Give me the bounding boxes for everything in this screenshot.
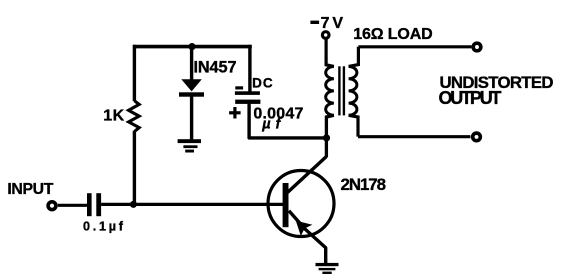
- diode D1 cathode wire: [190, 97, 193, 140]
- svg-text:1K: 1K: [103, 108, 124, 125]
- node: junction dot on top bus at diode branch: [188, 43, 195, 50]
- terminal: top output open circle: [473, 43, 481, 51]
- wire: input terminal to C1: [58, 204, 87, 207]
- wire: secondary bottom stub down to output wire: [349, 115, 358, 136]
- diode D1 1N457 triangle: [181, 79, 202, 91]
- wire: collector diagonal from bend into base bar: [288, 157, 327, 193]
- ground symbol (diode) bar 1: [178, 139, 201, 143]
- transistor Q1 base bar: [283, 183, 289, 227]
- svg-text:7V: 7V: [321, 15, 344, 32]
- wire: bottom output lead: [358, 135, 470, 138]
- power terminal -7V open circle: [322, 32, 329, 39]
- transformer T1 core line 1: [338, 66, 340, 115]
- wire: C1 to transistor base: [101, 203, 283, 206]
- transformer T1 core line 2: [343, 66, 345, 115]
- capacitor C1 plate 1: [87, 193, 92, 216]
- capacitor C2 bottom plate: [235, 100, 260, 104]
- node: junction dot under transformer primary: [323, 134, 330, 141]
- svg-text:16Ω LOAD: 16Ω LOAD: [353, 26, 433, 43]
- ground symbol (emitter) bar 2: [319, 268, 336, 270]
- plus polarity sign of C2: [229, 111, 241, 114]
- wire: left branch vertical upper segment: [133, 45, 136, 101]
- svg-text:2N178: 2N178: [341, 175, 387, 194]
- wire: left branch vertical lower segment down to input line: [133, 131, 136, 205]
- minus polarity sign of C2: [235, 86, 243, 89]
- wire: top bus from 1K branch to DC capacitor branch: [133, 45, 252, 49]
- wire: DC capacitor branch top vertical: [248, 45, 251, 92]
- label -7V: [310, 21, 319, 24]
- svg-text:DC: DC: [252, 75, 273, 90]
- wire: C2 bottom to junction under transformer: [249, 103, 326, 137]
- transistor Q1 emitter arrowhead (PNP, pointing toward base): [296, 221, 313, 236]
- svg-text:0.1µf: 0.1µf: [83, 220, 124, 234]
- transistor Q1 circle: [268, 171, 334, 237]
- ground symbol (emitter) bar 3: [322, 272, 331, 274]
- wire: top output lead: [358, 45, 471, 48]
- svg-text:INPUT: INPUT: [7, 181, 53, 198]
- transformer T1 secondary winding (4 loops): [349, 67, 357, 116]
- input terminal open circle: [48, 202, 56, 210]
- resistor R1 1K zigzag: [129, 101, 140, 132]
- svg-text:IN457: IN457: [194, 58, 237, 76]
- capacitor C1 plate 2: [96, 193, 101, 216]
- capacitor C2 top plate: [235, 91, 260, 95]
- wire: -7V terminal down to transformer primary: [326, 39, 334, 66]
- ground symbol (emitter) bar 1: [316, 263, 339, 266]
- wire: emitter diagonal from base bar: [289, 211, 326, 263]
- wire: secondary top stub up to output wire: [349, 47, 359, 67]
- terminal: bottom output open circle: [473, 133, 481, 141]
- ground symbol (diode) bar 2: [183, 145, 197, 148]
- diode D1 anode wire: [190, 47, 193, 80]
- node: junction dot where 1K branch meets input line: [130, 201, 137, 208]
- ground symbol (diode) bar 3: [185, 150, 194, 153]
- svg-text:OUTPUT: OUTPUT: [439, 88, 502, 108]
- wire: transformer primary bottom stub to junction and on to collector bend: [326, 115, 334, 157]
- diode D1 cathode bar: [179, 92, 204, 96]
- transformer T1 primary winding (4 loops): [326, 67, 334, 116]
